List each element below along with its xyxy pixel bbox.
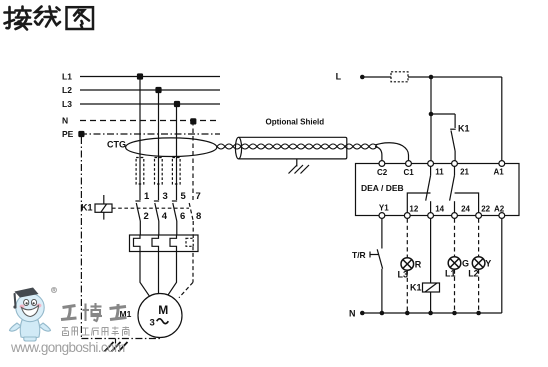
svg-text:L1: L1 (62, 72, 72, 82)
svg-text:K1: K1 (81, 203, 93, 213)
svg-text:3: 3 (163, 191, 168, 202)
svg-text:M: M (158, 303, 168, 317)
svg-text:5: 5 (181, 191, 187, 202)
svg-text:14: 14 (435, 205, 444, 214)
svg-text:R: R (415, 260, 422, 270)
svg-text:C2: C2 (377, 168, 388, 177)
svg-text:L: L (336, 72, 342, 82)
svg-text:L3: L3 (62, 99, 72, 109)
svg-text:K1: K1 (458, 124, 470, 134)
svg-text:21: 21 (460, 168, 469, 177)
svg-text:A2: A2 (494, 205, 505, 214)
svg-text:6: 6 (180, 211, 185, 222)
svg-text:11: 11 (435, 168, 444, 177)
svg-text:Y1: Y1 (379, 204, 389, 213)
svg-text:L2: L2 (62, 85, 72, 95)
svg-text:22: 22 (481, 205, 490, 214)
svg-text:4: 4 (162, 211, 168, 222)
svg-text:12: 12 (409, 205, 418, 214)
svg-text:T/R: T/R (352, 250, 366, 260)
svg-text:N: N (349, 309, 356, 319)
svg-text:G: G (462, 259, 469, 269)
svg-text:N: N (62, 116, 68, 126)
svg-text:L1: L1 (445, 269, 456, 279)
svg-text:C1: C1 (404, 168, 415, 177)
svg-text:DEA / DEB: DEA / DEB (361, 183, 404, 193)
svg-text:7: 7 (196, 191, 201, 202)
svg-text:www.gongboshi.com: www.gongboshi.com (10, 340, 125, 355)
svg-text:L2: L2 (468, 269, 479, 279)
svg-text:3: 3 (150, 318, 155, 329)
svg-text:A1: A1 (494, 168, 505, 177)
svg-text:L3: L3 (398, 270, 409, 280)
svg-text:24: 24 (461, 205, 470, 214)
svg-text:Y: Y (485, 259, 491, 269)
svg-text:8: 8 (196, 211, 201, 222)
svg-text:2: 2 (144, 211, 149, 222)
svg-text:1: 1 (144, 191, 150, 202)
svg-text:PE: PE (62, 129, 74, 139)
svg-text:K1: K1 (410, 283, 422, 293)
svg-text:CTG: CTG (107, 140, 126, 150)
svg-text:Optional Shield: Optional Shield (266, 118, 325, 127)
